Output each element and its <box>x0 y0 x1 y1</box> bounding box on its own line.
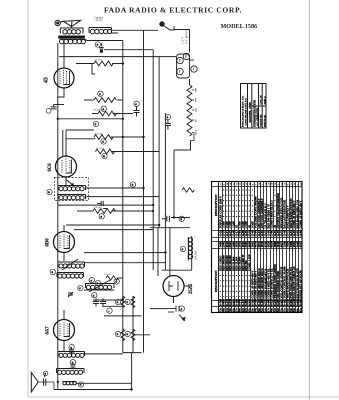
svg-text:WATTS 45: WATTS 45 <box>264 115 267 127</box>
svg-text:COND .25 MFD 200 V: COND .25 MFD 200 V <box>299 200 303 229</box>
svg-text:COND .1 MF: COND .1 MF <box>247 254 251 271</box>
svg-text:51,000: 51,000 <box>96 147 103 150</box>
svg-text:-: - <box>108 309 109 313</box>
svg-text:MODEL 1586: MODEL 1586 <box>248 102 252 123</box>
svg-text:DESCRIPTION: DESCRIPTION <box>214 194 218 216</box>
svg-text:COND 8 MFD ELECT: COND 8 MFD ELECT <box>270 200 274 229</box>
svg-text:25Z5: 25Z5 <box>189 283 194 294</box>
svg-text:FADA RADIO & ELECTRIC CORP.: FADA RADIO & ELECTRIC CORP. <box>104 6 242 15</box>
svg-text:FADA RADIO & ELEC. CO.: FADA RADIO & ELEC. CO. <box>242 95 245 127</box>
svg-text:6C6: 6C6 <box>48 163 53 172</box>
svg-text:F: F <box>179 70 181 74</box>
svg-text:43: 43 <box>44 77 50 83</box>
svg-text:100,000: 100,000 <box>195 250 198 260</box>
svg-text:LONG ISLAND CITY, N.Y.: LONG ISLAND CITY, N.Y. <box>244 98 247 126</box>
svg-text:115V: 115V <box>195 129 198 135</box>
svg-text:F: F <box>193 68 195 72</box>
svg-text:KNOB SET OF FOUR: KNOB SET OF FOUR <box>299 269 303 298</box>
svg-text:6D6: 6D6 <box>46 238 51 247</box>
svg-text:VOLTS 115: VOLTS 115 <box>260 114 263 127</box>
svg-text:A.C. OPERATED: A.C. OPERATED <box>256 107 259 126</box>
svg-text:250,000: 250,000 <box>95 132 104 135</box>
svg-text:250,000: 250,000 <box>94 206 103 209</box>
svg-text:500,000: 500,000 <box>93 108 102 111</box>
svg-text:AMP .4: AMP .4 <box>264 96 267 105</box>
svg-text:MODEL 1586: MODEL 1586 <box>221 23 258 30</box>
svg-text:6A7: 6A7 <box>46 326 51 335</box>
svg-text:B-385: B-385 <box>299 298 303 306</box>
svg-text:6737: 6737 <box>299 241 303 247</box>
svg-text:DESCRIPTION: DESCRIPTION <box>214 270 218 292</box>
svg-text:A.C.MAINS: A.C.MAINS <box>185 28 189 44</box>
svg-text:P: P <box>185 55 187 59</box>
svg-text:CYC. 60: CYC. 60 <box>260 95 263 105</box>
svg-text:G-98: G-98 <box>299 230 303 237</box>
svg-text:63c: 63c <box>299 307 303 312</box>
svg-text:47747: 47747 <box>96 20 103 23</box>
svg-text:10,000: 10,000 <box>104 273 111 276</box>
svg-text:P: P <box>179 59 181 63</box>
svg-text:250,000: 250,000 <box>94 58 103 61</box>
